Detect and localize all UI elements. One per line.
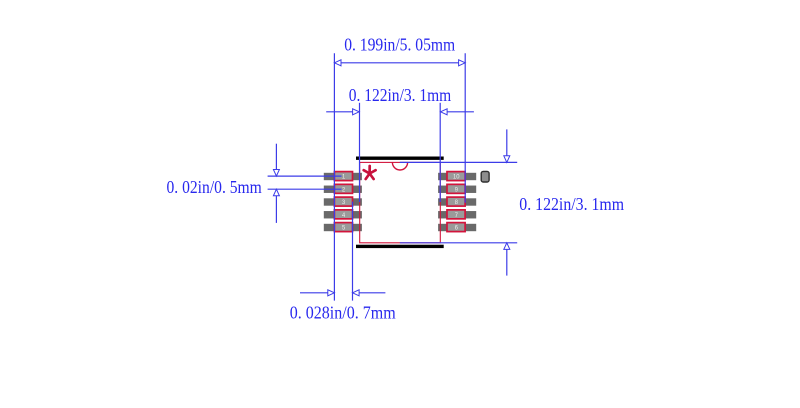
extension line body right (3.1mm) — [439, 103, 441, 202]
lead 5 — [334, 223, 352, 232]
lead 6 — [447, 223, 465, 232]
dimension arrow line 0.5mm bottom — [275, 189, 277, 223]
pad 2 — [324, 186, 362, 193]
pin1 asterisk — [364, 166, 376, 179]
pad 8 — [438, 198, 476, 205]
dimension arrow line 3.1mm vertical top — [506, 129, 508, 162]
lead 10 — [447, 172, 465, 181]
lead 9 — [447, 184, 465, 193]
dimension arrow line 0.5mm top — [275, 144, 277, 176]
lead 7 — [447, 210, 465, 219]
pad 6 — [438, 224, 476, 231]
pad 10 — [438, 173, 476, 180]
pin1 notch arc — [392, 162, 407, 170]
body outline — [360, 162, 441, 242]
lead 2 — [334, 184, 352, 193]
extension line left lead tip (5.05mm / 0.7mm) — [333, 53, 335, 300]
arrowhead 3.1mm vertical up — [504, 243, 510, 250]
arrowhead 3.1mm vertical down — [504, 156, 510, 163]
arrowhead 0.5mm up — [273, 189, 279, 196]
pad 9 — [438, 186, 476, 193]
dimension arrow line 0.7mm left — [300, 292, 334, 294]
lead 1 — [334, 172, 352, 181]
svg-text:0. 02in/0. 5mm: 0. 02in/0. 5mm — [167, 177, 262, 197]
extension line body left (3.1mm) — [359, 103, 361, 202]
svg-text:2: 2 — [342, 186, 346, 193]
pad 5 — [324, 224, 362, 231]
extension line pin1 center — [268, 175, 342, 177]
lead 3 — [334, 197, 352, 206]
pad 4 — [324, 211, 362, 218]
svg-text:8: 8 — [455, 199, 459, 206]
extension line body top right (3.1mm vertical) — [400, 161, 517, 163]
dimension arrow line 3.1mm left — [326, 111, 359, 113]
dimension arrow line 0.7mm right — [353, 292, 386, 294]
arrowhead 5.05mm right — [459, 60, 466, 66]
arrowhead 0.5mm down — [273, 170, 279, 177]
extension line lead inner (0.7mm) — [352, 202, 354, 301]
lead 4 — [334, 210, 352, 219]
color swatch marker — [481, 171, 489, 182]
bottom silkscreen bar — [356, 245, 444, 248]
arrowhead 0.7mm left — [328, 290, 335, 296]
dimension arrow line 3.1mm vertical bottom — [506, 243, 508, 276]
svg-text:0. 122in/3. 1mm: 0. 122in/3. 1mm — [519, 194, 624, 214]
svg-text:1: 1 — [342, 174, 346, 181]
svg-text:0. 028in/0. 7mm: 0. 028in/0. 7mm — [290, 303, 396, 323]
extension line body bottom right (3.1mm vertical) — [400, 242, 517, 244]
svg-text:7: 7 — [455, 212, 459, 219]
pad 7 — [438, 211, 476, 218]
dimension line 5.05mm — [334, 62, 465, 64]
arrowhead 5.05mm left — [334, 60, 341, 66]
lead 8 — [447, 197, 465, 206]
svg-text:6: 6 — [455, 225, 459, 232]
top silkscreen bar — [356, 157, 444, 160]
arrowhead 3.1mm left — [353, 109, 360, 115]
pad 1 — [324, 173, 362, 180]
arrowhead 0.7mm right — [353, 290, 360, 296]
svg-text:5: 5 — [342, 225, 346, 232]
extension line pin2 center — [268, 188, 342, 190]
svg-text:9: 9 — [455, 186, 459, 193]
svg-text:0. 199in/5. 05mm: 0. 199in/5. 05mm — [344, 35, 455, 55]
arrowhead 3.1mm right — [441, 109, 448, 115]
dimension arrow line 3.1mm right — [441, 111, 474, 113]
svg-text:0. 122in/3. 1mm: 0. 122in/3. 1mm — [349, 85, 452, 105]
pad 3 — [324, 198, 362, 205]
svg-text:3: 3 — [342, 199, 346, 206]
svg-text:10: 10 — [453, 174, 460, 181]
svg-text:4: 4 — [342, 212, 346, 219]
extension line right lead tip (5.05mm) — [464, 53, 466, 203]
